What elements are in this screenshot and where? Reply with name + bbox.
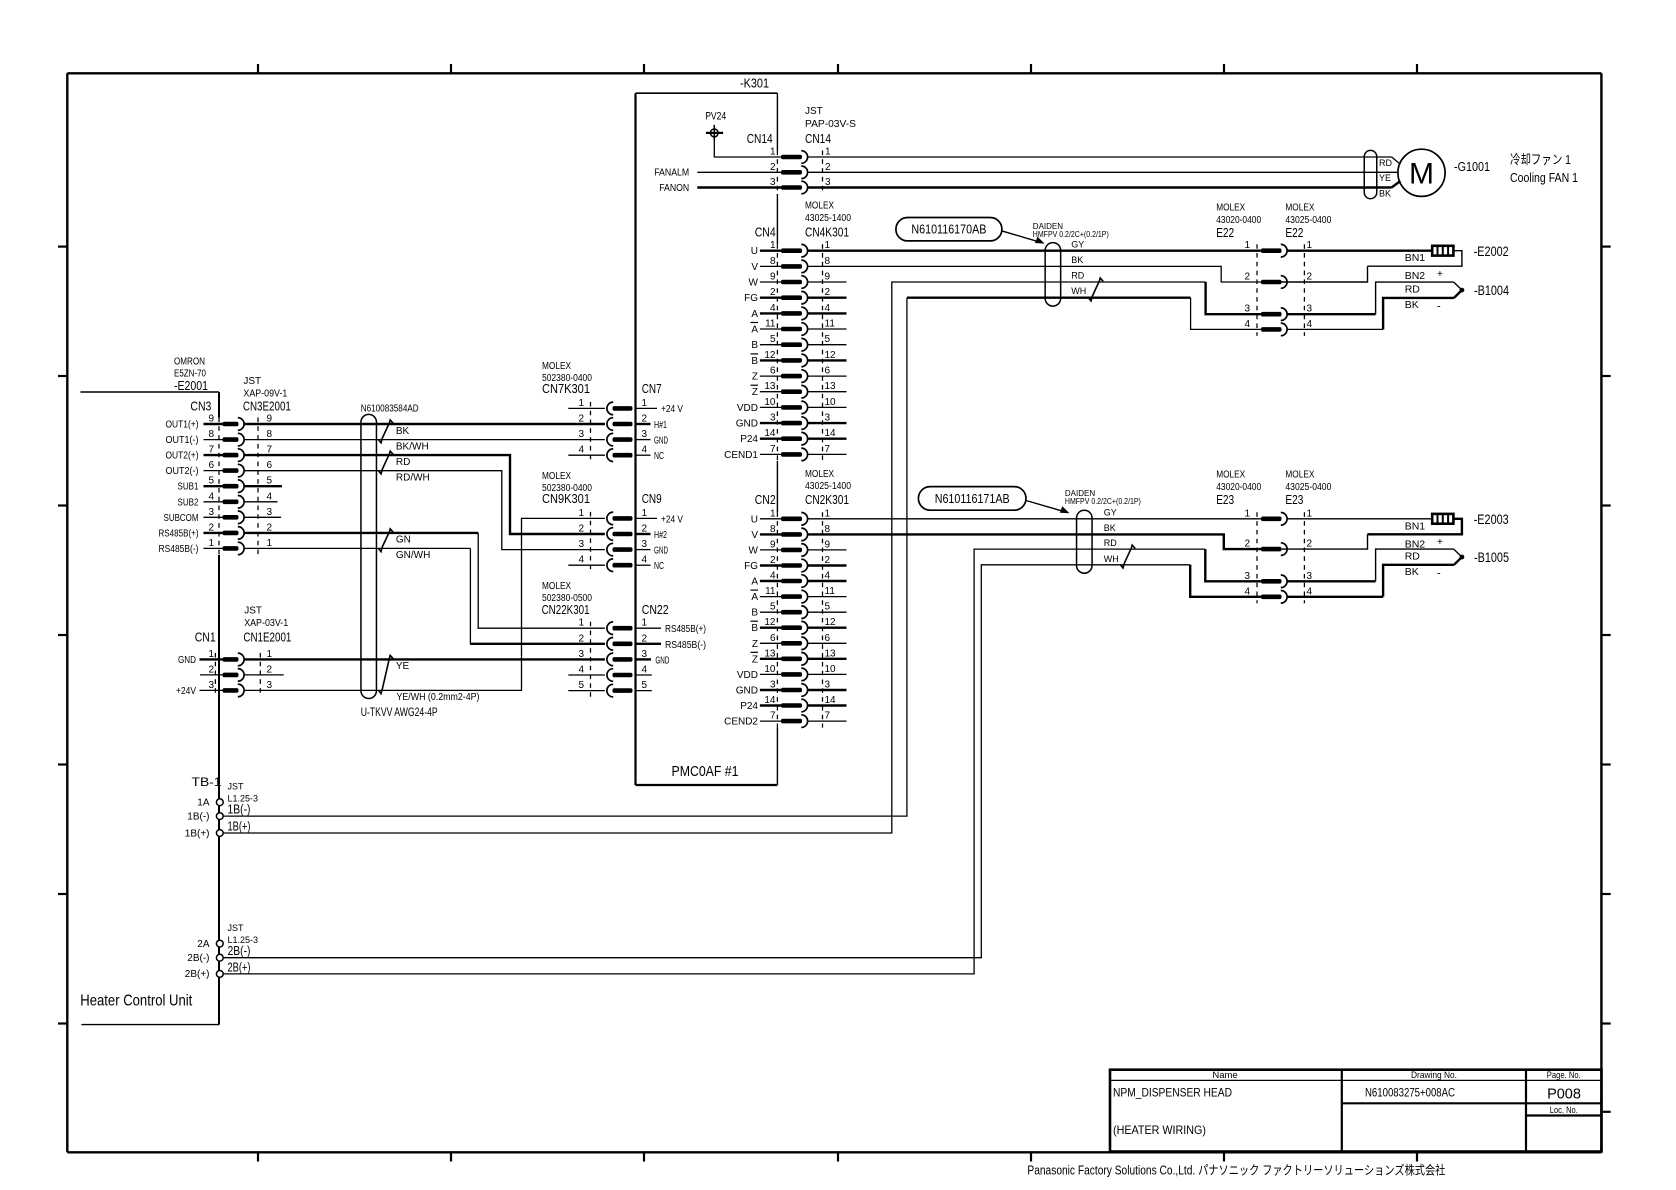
svg-text:FG: FG — [744, 293, 758, 304]
connector CN3E2001 (JST XAP-09V-1) — [223, 418, 245, 555]
svg-text:CEND2: CEND2 — [724, 717, 758, 728]
wire FANALM to CN14 pin2 — [697, 171, 781, 173]
svg-text:JST: JST — [244, 606, 262, 617]
svg-text:H#1: H#1 — [654, 420, 667, 431]
svg-text:GND: GND — [178, 655, 196, 666]
svg-text:CN14: CN14 — [805, 131, 831, 146]
connector CN1E2001 (JST XAP-03V-1) — [223, 653, 245, 697]
svg-text:FANON: FANON — [659, 183, 689, 194]
twisted pair slash E23 — [1121, 545, 1136, 568]
svg-text:BN1: BN1 — [1405, 252, 1426, 264]
svg-text:P008: P008 — [1547, 1087, 1581, 1103]
svg-text:1: 1 — [642, 618, 648, 629]
title block frame — [1110, 1070, 1602, 1152]
svg-text:GND: GND — [654, 435, 668, 446]
wire slant RD into motor — [1392, 157, 1401, 164]
svg-text:1: 1 — [825, 147, 831, 158]
svg-text:1: 1 — [578, 508, 584, 519]
frame zone ticks — [257, 64, 259, 73]
wire WH thick run — [907, 297, 1191, 299]
svg-text:13: 13 — [764, 381, 776, 392]
svg-text:Name: Name — [1212, 1070, 1237, 1081]
svg-text:1: 1 — [825, 508, 831, 519]
svg-text:4: 4 — [578, 555, 584, 566]
connector CN14 (JST PAP-03V-S) on -K301 — [781, 151, 808, 194]
svg-text:9: 9 — [770, 272, 776, 283]
pin rows CN3 labels numbers — [159, 414, 273, 555]
svg-text:GY: GY — [1071, 240, 1084, 250]
svg-text:4: 4 — [642, 665, 648, 676]
svg-text:GND: GND — [655, 655, 669, 666]
dashed mating line CN1 right — [259, 653, 261, 697]
svg-text:2B(-): 2B(-) — [228, 944, 251, 958]
wire stubs CN22 pins 4 5 left — [568, 674, 605, 676]
svg-text:2: 2 — [578, 633, 584, 644]
callout arrow to E23 cable — [1026, 501, 1065, 512]
svg-text:2: 2 — [1307, 539, 1313, 550]
svg-text:3: 3 — [208, 680, 214, 691]
svg-text:CN2: CN2 — [755, 492, 776, 507]
svg-text:+24 V: +24 V — [661, 514, 683, 525]
svg-text:1: 1 — [770, 147, 776, 158]
svg-text:BN1: BN1 — [1405, 520, 1426, 532]
svg-text:Z: Z — [752, 639, 758, 650]
dashed mating line CN14 right — [822, 151, 824, 195]
svg-text:6: 6 — [770, 633, 776, 644]
svg-text:+24 V: +24 V — [661, 404, 683, 415]
wire CN14 pin3 to fan (BK) — [808, 186, 1392, 188]
svg-text:B: B — [751, 356, 758, 367]
svg-text:-K301: -K301 — [740, 76, 769, 91]
pin numbers E22 — [1244, 240, 1312, 330]
svg-text:JST: JST — [243, 376, 261, 387]
svg-text:Cooling FAN 1: Cooling FAN 1 — [1510, 170, 1578, 185]
heater element -E2002 with loop — [1287, 249, 1432, 251]
svg-text:A: A — [751, 325, 758, 336]
svg-text:N610083275+008AC: N610083275+008AC — [1365, 1086, 1455, 1100]
svg-text:W: W — [749, 545, 759, 556]
svg-text:CN1: CN1 — [195, 630, 216, 645]
svg-text:CN7K301: CN7K301 — [542, 381, 590, 396]
svg-text:N610116170AB: N610116170AB — [911, 222, 986, 237]
svg-text:RS485B(-): RS485B(-) — [159, 544, 199, 555]
svg-text:6: 6 — [770, 366, 776, 377]
svg-text:Z: Z — [752, 654, 758, 665]
svg-text:P24: P24 — [740, 701, 758, 712]
svg-text:BK: BK — [1379, 189, 1391, 199]
svg-text:GY: GY — [1104, 508, 1117, 518]
svg-text:PV24: PV24 — [705, 110, 726, 122]
svg-text:VDD: VDD — [737, 403, 758, 414]
svg-text:1: 1 — [578, 398, 584, 409]
wire GY CN2-U to E23 pin1 — [808, 518, 1261, 520]
svg-text:1B(+): 1B(+) — [185, 828, 210, 839]
wire OUT1(+) BK to CN7 H#1 — [244, 423, 605, 425]
svg-text:CN4K301: CN4K301 — [805, 225, 849, 240]
wires CN22 right side — [636, 627, 661, 629]
svg-text:6: 6 — [825, 366, 831, 377]
pin numbers CN1 — [208, 649, 272, 691]
svg-text:RD: RD — [396, 457, 410, 468]
svg-text:1A: 1A — [197, 798, 210, 809]
svg-text:11: 11 — [765, 586, 776, 597]
svg-text:RS485B(+): RS485B(+) — [665, 624, 706, 635]
twisted pair slash BK pair — [379, 420, 393, 443]
svg-text:5: 5 — [642, 680, 648, 691]
twisted pair slash YE pair — [379, 655, 393, 693]
svg-text:BK: BK — [1104, 523, 1116, 533]
connector CN7K301 (MOLEX 502380-0400) — [607, 402, 633, 461]
wire stub CN1 pin2 left — [200, 674, 223, 676]
wire GY CN4-U to E22 pin1 — [808, 249, 1261, 251]
svg-text:JST: JST — [228, 782, 245, 792]
svg-text:13: 13 — [825, 381, 837, 392]
svg-text:RS485B(-): RS485B(-) — [665, 640, 706, 651]
svg-text:B: B — [751, 623, 758, 634]
pin numbers CN7 — [578, 398, 647, 456]
svg-text:3: 3 — [578, 429, 584, 440]
svg-text:3: 3 — [642, 429, 648, 440]
wire stub CN7 pin1 left — [568, 407, 605, 409]
svg-text:BK: BK — [1071, 255, 1083, 265]
svg-text:4: 4 — [578, 445, 584, 456]
sensor -B1004 probe — [1287, 313, 1375, 315]
wire RS485B(-) GN/WH to CN22 pin2 — [244, 547, 470, 549]
svg-text:NC: NC — [654, 561, 664, 572]
svg-text:GN/WH: GN/WH — [396, 550, 430, 561]
svg-text:1: 1 — [642, 508, 648, 519]
svg-text:43025-1400: 43025-1400 — [805, 213, 851, 224]
twisted pair slash GN pair — [379, 529, 393, 552]
svg-text:H#2: H#2 — [654, 530, 667, 541]
terminal 2B(+) — [216, 971, 223, 978]
dashed mating line CN2 left — [776, 512, 778, 727]
svg-text:10: 10 — [825, 664, 837, 675]
svg-text:2: 2 — [1244, 272, 1250, 283]
svg-text:3: 3 — [578, 649, 584, 660]
wire stub SUB2 — [244, 501, 277, 503]
svg-text:BK/WH: BK/WH — [396, 441, 429, 452]
svg-text:FANALM: FANALM — [654, 168, 689, 179]
svg-text:B: B — [751, 608, 758, 619]
svg-text:SUBCOM: SUBCOM — [164, 513, 199, 524]
svg-text:XAP-03V-1: XAP-03V-1 — [244, 618, 288, 629]
svg-text:Panasonic Factory Solutions Co: Panasonic Factory Solutions Co.,Ltd. パナソ… — [1027, 1163, 1445, 1178]
pin numbers E23 — [1244, 508, 1312, 597]
cable sheath oval E23 (DAIDEN) — [1077, 510, 1093, 573]
svg-text:-B1005: -B1005 — [1474, 550, 1509, 565]
svg-text:CN9K301: CN9K301 — [542, 491, 590, 506]
svg-text:1: 1 — [267, 538, 273, 549]
wire FANON to CN14 pin3 — [697, 186, 781, 188]
svg-text:2: 2 — [267, 664, 273, 675]
svg-text:OUT1(+): OUT1(+) — [166, 420, 199, 431]
svg-text:2: 2 — [825, 162, 831, 173]
dashed mating line E22 right — [1303, 244, 1305, 336]
svg-text:11: 11 — [825, 319, 836, 330]
callout arrow to E22 cable — [1002, 231, 1041, 242]
border frame — [67, 72, 1601, 74]
svg-text:CN22: CN22 — [642, 602, 669, 617]
dashed mating line CN9 left — [590, 512, 592, 572]
wire BK CN2-V to E23 pin2 — [808, 534, 1261, 549]
svg-text:8: 8 — [208, 429, 214, 440]
svg-text:5: 5 — [770, 602, 776, 613]
svg-text:11: 11 — [765, 319, 776, 330]
svg-text:8: 8 — [770, 256, 776, 267]
PMC0AF #1 controller box -K301 — [636, 92, 778, 94]
svg-text:OUT2(+): OUT2(+) — [166, 451, 199, 462]
svg-text:A: A — [751, 309, 758, 320]
svg-text:Loc. No.: Loc. No. — [1550, 1105, 1578, 1116]
svg-text:5: 5 — [578, 680, 584, 691]
svg-text:HMFPV 0.2/2C+(0.2/1P): HMFPV 0.2/2C+(0.2/1P) — [1033, 230, 1109, 239]
dashed mating line CN7 left — [590, 402, 592, 462]
cable callout N610116170AB — [896, 218, 1002, 241]
svg-text:7: 7 — [825, 444, 831, 455]
svg-text:V: V — [751, 262, 758, 273]
svg-text:U: U — [751, 246, 758, 257]
wire GND into CN1 pin1 — [200, 658, 223, 660]
wire RD to E23 pin3 — [1205, 549, 1261, 581]
svg-text:VDD: VDD — [737, 670, 758, 681]
svg-text:GND: GND — [736, 419, 758, 430]
svg-text:2: 2 — [578, 414, 584, 425]
svg-text:1B(-): 1B(-) — [187, 811, 209, 822]
svg-text:2A: 2A — [197, 939, 210, 950]
svg-text:BN2: BN2 — [1405, 270, 1426, 282]
svg-text:1B(+): 1B(+) — [228, 820, 251, 834]
connector pair E23 (MOLEX 43020-0400 / 43025-0400) — [1261, 513, 1287, 604]
svg-text:Drawing No.: Drawing No. — [1411, 1070, 1457, 1081]
terminal 1B(+) — [216, 830, 223, 837]
svg-text:3: 3 — [267, 507, 273, 518]
wire YE/WH CN1 +24V to CN9 +24V — [244, 518, 605, 690]
svg-text:RD: RD — [1104, 538, 1117, 548]
wire WH to E23 pin4 — [1190, 565, 1261, 597]
pin numbers CN14 — [770, 147, 831, 189]
wires CN7 right side — [636, 407, 657, 409]
svg-text:3: 3 — [267, 680, 273, 691]
wire WH TB2B- riser — [223, 565, 1190, 958]
svg-text:Heater Control Unit: Heater Control Unit — [80, 992, 192, 1009]
dashed mating line CN4 left — [776, 244, 778, 461]
wire OUT2(+) RD to CN9 H#2 — [244, 455, 605, 534]
wire RS485B(+) GN to CN22 pin1 — [244, 532, 478, 534]
svg-text:2B(+): 2B(+) — [185, 969, 210, 980]
svg-text:MOLEX: MOLEX — [1285, 203, 1314, 214]
svg-text:U-TKVV AWG24-4P: U-TKVV AWG24-4P — [361, 705, 438, 719]
svg-text:8: 8 — [825, 256, 831, 267]
svg-text:E23: E23 — [1216, 492, 1234, 507]
svg-text:N610083584AD: N610083584AD — [361, 403, 419, 414]
svg-text:CN4: CN4 — [755, 225, 776, 240]
svg-text:YE/WH (0.2mm2-4P): YE/WH (0.2mm2-4P) — [397, 692, 480, 703]
svg-text:3: 3 — [642, 539, 648, 550]
svg-text:-: - — [1437, 567, 1441, 579]
svg-text:PAP-03V-S: PAP-03V-S — [805, 119, 856, 130]
connector CN22K301 (MOLEX 502380-0500) — [607, 622, 633, 697]
svg-text:-B1004: -B1004 — [1474, 283, 1509, 298]
svg-text:10: 10 — [764, 664, 776, 675]
svg-text:8: 8 — [267, 429, 273, 440]
svg-text:2: 2 — [578, 524, 584, 535]
wire slant BK into motor — [1392, 181, 1401, 188]
twisted pair slash RD pair — [379, 451, 393, 474]
svg-text:WH: WH — [1071, 286, 1086, 296]
svg-text:OUT2(-): OUT2(-) — [166, 466, 199, 477]
wire +24V into CN1 pin3 — [200, 689, 223, 691]
svg-text:JST: JST — [228, 923, 245, 933]
wire PV24 to CN14 pin1 — [714, 141, 781, 157]
svg-text:2: 2 — [1307, 272, 1313, 283]
svg-text:GN: GN — [396, 535, 411, 546]
dashed mating line CN14 left — [776, 151, 778, 195]
svg-text:10: 10 — [825, 397, 837, 408]
svg-text:CN22K301: CN22K301 — [542, 602, 590, 617]
terminal 1B(-) — [216, 813, 223, 820]
dashed mating line CN3 right — [257, 418, 259, 555]
svg-text:-G1001: -G1001 — [1454, 159, 1490, 174]
svg-text:Z: Z — [752, 372, 758, 383]
svg-text:+24V: +24V — [176, 686, 196, 697]
svg-text:V: V — [751, 530, 758, 541]
svg-text:11: 11 — [825, 586, 836, 597]
svg-text:5: 5 — [825, 334, 831, 345]
wire stub CN1 pin2 right — [244, 674, 283, 676]
cable sheath oval E22 (DAIDEN) — [1045, 243, 1061, 307]
svg-text:CN14: CN14 — [747, 131, 773, 146]
svg-text:RD: RD — [1071, 270, 1084, 280]
svg-text:RD: RD — [1405, 283, 1421, 295]
svg-text:CN9: CN9 — [642, 491, 662, 506]
motor M -G1001 cooling fan — [1398, 149, 1445, 196]
svg-text:1B(-): 1B(-) — [228, 803, 251, 817]
pin numbers CN9 — [578, 508, 647, 566]
svg-text:1: 1 — [642, 398, 648, 409]
svg-text:RD: RD — [1379, 158, 1392, 168]
svg-text:MOLEX: MOLEX — [805, 201, 834, 212]
svg-text:N610116171AB: N610116171AB — [935, 491, 1010, 506]
wire RD TB2B+ riser — [223, 549, 1205, 974]
svg-text:FG: FG — [744, 561, 758, 572]
svg-text:+: + — [1437, 269, 1443, 280]
svg-text:+: + — [1437, 537, 1443, 548]
fan cable sheath oval — [1364, 150, 1377, 198]
svg-text:CEND1: CEND1 — [724, 450, 758, 461]
svg-text:W: W — [749, 278, 759, 289]
svg-text:BK: BK — [1405, 566, 1419, 578]
cable callout N610116171AB — [918, 487, 1026, 511]
wire RD to E22 pin3 — [1206, 282, 1261, 314]
svg-text:JST: JST — [805, 106, 823, 117]
svg-text:MOLEX: MOLEX — [542, 581, 571, 592]
svg-text:MOLEX: MOLEX — [1216, 203, 1245, 214]
svg-text:4: 4 — [578, 665, 584, 676]
svg-text:4: 4 — [1307, 319, 1313, 330]
svg-text:YE: YE — [396, 661, 410, 672]
svg-text:-: - — [1437, 301, 1441, 313]
svg-text:SUB1: SUB1 — [178, 482, 199, 493]
connector CN2K301 (MOLEX 43025-1400) on -K301 — [781, 513, 808, 728]
svg-text:RD: RD — [1405, 550, 1421, 562]
dashed mating line E23 right — [1303, 512, 1305, 603]
svg-text:BK: BK — [1405, 299, 1419, 311]
svg-text:4: 4 — [642, 445, 648, 456]
wire WH TB1B- riser — [223, 298, 907, 816]
svg-text:MOLEX: MOLEX — [542, 361, 571, 372]
wire CN14 pin1 to fan (RD) — [808, 156, 1392, 158]
dashed mating line CN2 right — [822, 512, 824, 727]
svg-text:P24: P24 — [740, 434, 758, 445]
svg-text:2: 2 — [770, 162, 776, 173]
svg-text:4: 4 — [1244, 319, 1250, 330]
terminal 2B(-) — [216, 954, 223, 961]
svg-text:9: 9 — [825, 539, 831, 550]
wire stub CN7 pin4 left — [568, 454, 605, 456]
svg-text:YE: YE — [1379, 173, 1391, 183]
wire YE CN1-GND to CN22 GND — [244, 658, 605, 660]
svg-text:3: 3 — [208, 507, 214, 518]
svg-text:BK: BK — [396, 426, 410, 437]
svg-text:5: 5 — [770, 334, 776, 345]
svg-text:NC: NC — [654, 451, 664, 462]
connector CN9K301 (MOLEX 502380-0400) — [607, 512, 633, 571]
wire OUT1(-) BK/WH to CN7 GND — [244, 439, 605, 441]
dashed mating line E22 left — [1256, 244, 1258, 336]
dashed mating line CN22 left — [590, 622, 592, 697]
svg-text:CN2K301: CN2K301 — [805, 492, 849, 507]
wire stub SUB1 — [244, 485, 282, 487]
svg-text:MOLEX: MOLEX — [805, 469, 834, 480]
svg-text:4: 4 — [267, 491, 273, 502]
heater element -E2003 with loop — [1287, 518, 1432, 520]
svg-text:CN3E2001: CN3E2001 — [243, 399, 291, 414]
svg-text:4: 4 — [642, 555, 648, 566]
svg-text:A: A — [751, 577, 758, 588]
svg-text:E22: E22 — [1285, 225, 1303, 240]
svg-text:9: 9 — [770, 539, 776, 550]
terminal 1A — [216, 799, 223, 806]
svg-text:Page. No.: Page. No. — [1547, 1070, 1581, 1081]
svg-text:CN7: CN7 — [642, 381, 662, 396]
svg-text:HMFPV 0.2/2C+(0.2/1P): HMFPV 0.2/2C+(0.2/1P) — [1065, 497, 1141, 506]
svg-text:NPM_DISPENSER HEAD: NPM_DISPENSER HEAD — [1113, 1086, 1232, 1100]
svg-text:PMC0AF #1: PMC0AF #1 — [672, 763, 739, 780]
svg-text:B: B — [751, 340, 758, 351]
wire BK CN4-V to E22 pin2 — [808, 266, 1261, 282]
connector pair E22 (MOLEX 43020-0400 / 43025-0400) — [1261, 244, 1287, 335]
svg-text:-E2003: -E2003 — [1474, 512, 1509, 527]
wire stub CN9 pin4 left — [568, 564, 605, 566]
wire RD TB1B+ riser — [223, 282, 1205, 833]
svg-text:5: 5 — [825, 602, 831, 613]
pin rows CN4 labels numbers stubs — [724, 240, 846, 461]
wire OUT2(-) RD/WH to CN9 GND — [244, 471, 605, 550]
svg-text:E23: E23 — [1285, 492, 1303, 507]
svg-text:OMRON: OMRON — [174, 357, 205, 368]
svg-text:2B(+): 2B(+) — [228, 960, 251, 974]
svg-text:TB-1: TB-1 — [192, 775, 222, 789]
wires CN9 right side — [636, 517, 657, 519]
svg-text:CN1E2001: CN1E2001 — [243, 630, 291, 645]
terminal 2A — [216, 940, 223, 947]
pin numbers CN22 — [578, 618, 647, 691]
wire CN14 pin2 to fan (YE) — [808, 171, 1398, 173]
sensor -B1005 probe — [1287, 580, 1375, 582]
svg-text:3: 3 — [578, 539, 584, 550]
svg-text:7: 7 — [770, 444, 776, 455]
